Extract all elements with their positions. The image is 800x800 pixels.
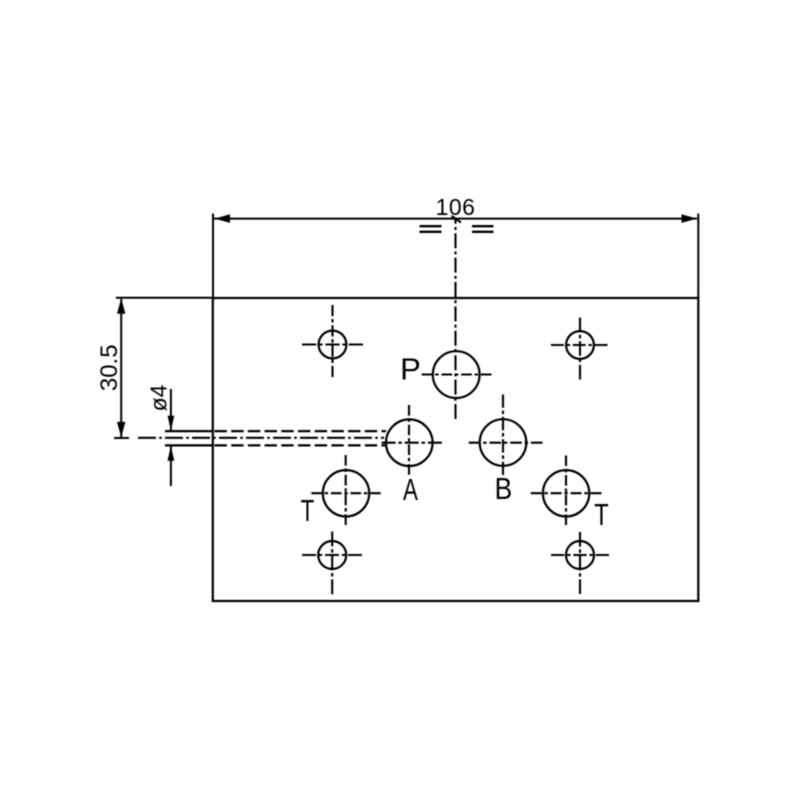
port A horizontal crosshair (382, 442, 442, 444)
horizontal axis centerline (dash-dot) to port A (138, 437, 384, 439)
bolt hole bottom-left horizontal crosshair (302, 554, 362, 556)
port T left vertical crosshair (345, 455, 347, 525)
dimension o4 lower line (170, 446, 172, 486)
arrowhead 106 right (682, 214, 698, 223)
port P circle (433, 351, 480, 398)
bolt hole top-left vertical crosshair (331, 305, 333, 377)
drill contour solid bottom (165, 444, 212, 446)
svg-text:B: B (495, 472, 513, 506)
svg-text:ø4: ø4 (146, 384, 172, 411)
oblique slash terminator at centerline (452, 216, 462, 223)
bolt hole top-right horizontal crosshair (551, 344, 608, 346)
svg-text:A: A (403, 472, 418, 506)
port P horizontal crosshair (422, 373, 492, 375)
bolt hole top-left circle (319, 331, 347, 359)
svg-text:T: T (594, 497, 609, 532)
drill hidden line bottom (dashed) (215, 444, 386, 446)
port B vertical crosshair (502, 395, 504, 476)
svg-text:P: P (400, 352, 421, 387)
port A circle (386, 419, 433, 466)
port T left circle (323, 470, 369, 516)
bolt hole top-right circle (566, 331, 594, 359)
bolt hole bottom-right vertical crosshair (579, 532, 581, 594)
dimension 30.5 top extension line (116, 297, 212, 299)
arrowhead 30.5 top (117, 298, 125, 314)
svg-text:106: 106 (436, 194, 476, 220)
dimension line 106 (214, 218, 697, 220)
dimension 30.5 bottom extension tick (114, 437, 129, 439)
bolt hole bottom-right circle (566, 541, 594, 569)
dimension line 30.5 (120, 299, 122, 437)
bolt hole bottom-left vertical crosshair (331, 532, 333, 595)
port B circle (480, 419, 527, 466)
bolt hole top-left horizontal crosshair (302, 343, 363, 345)
port B horizontal crosshair (469, 442, 543, 444)
dimension o4 upper line (170, 389, 172, 430)
dimension 106 left extension line (212, 214, 214, 299)
port T left horizontal crosshair (311, 492, 380, 494)
port T right horizontal crosshair (531, 492, 602, 494)
drill contour solid top (165, 430, 212, 432)
drill hidden line top (dashed) (215, 430, 387, 432)
dimension 106 right extension line (697, 214, 699, 299)
plate outline (213, 298, 699, 601)
arrowhead o4 upper (down) (168, 416, 175, 431)
bolt hole bottom-right horizontal crosshair (551, 554, 609, 556)
symmetry mark right (=) (472, 225, 494, 227)
port T right vertical crosshair (565, 456, 567, 526)
port A vertical crosshair (408, 405, 410, 475)
arrowhead 106 left (215, 214, 231, 223)
symmetry mark left (=) (420, 225, 442, 227)
port T right circle (543, 470, 589, 516)
vertical centerline (dash-dot) through P (454, 219, 456, 421)
bolt hole top-right vertical crosshair (579, 318, 581, 380)
svg-text:30.5: 30.5 (96, 344, 123, 391)
bolt hole bottom-left circle (318, 541, 346, 569)
arrowhead o4 lower (up) (168, 446, 175, 461)
arrowhead 30.5 bottom (117, 422, 125, 438)
svg-text:T: T (301, 493, 315, 527)
